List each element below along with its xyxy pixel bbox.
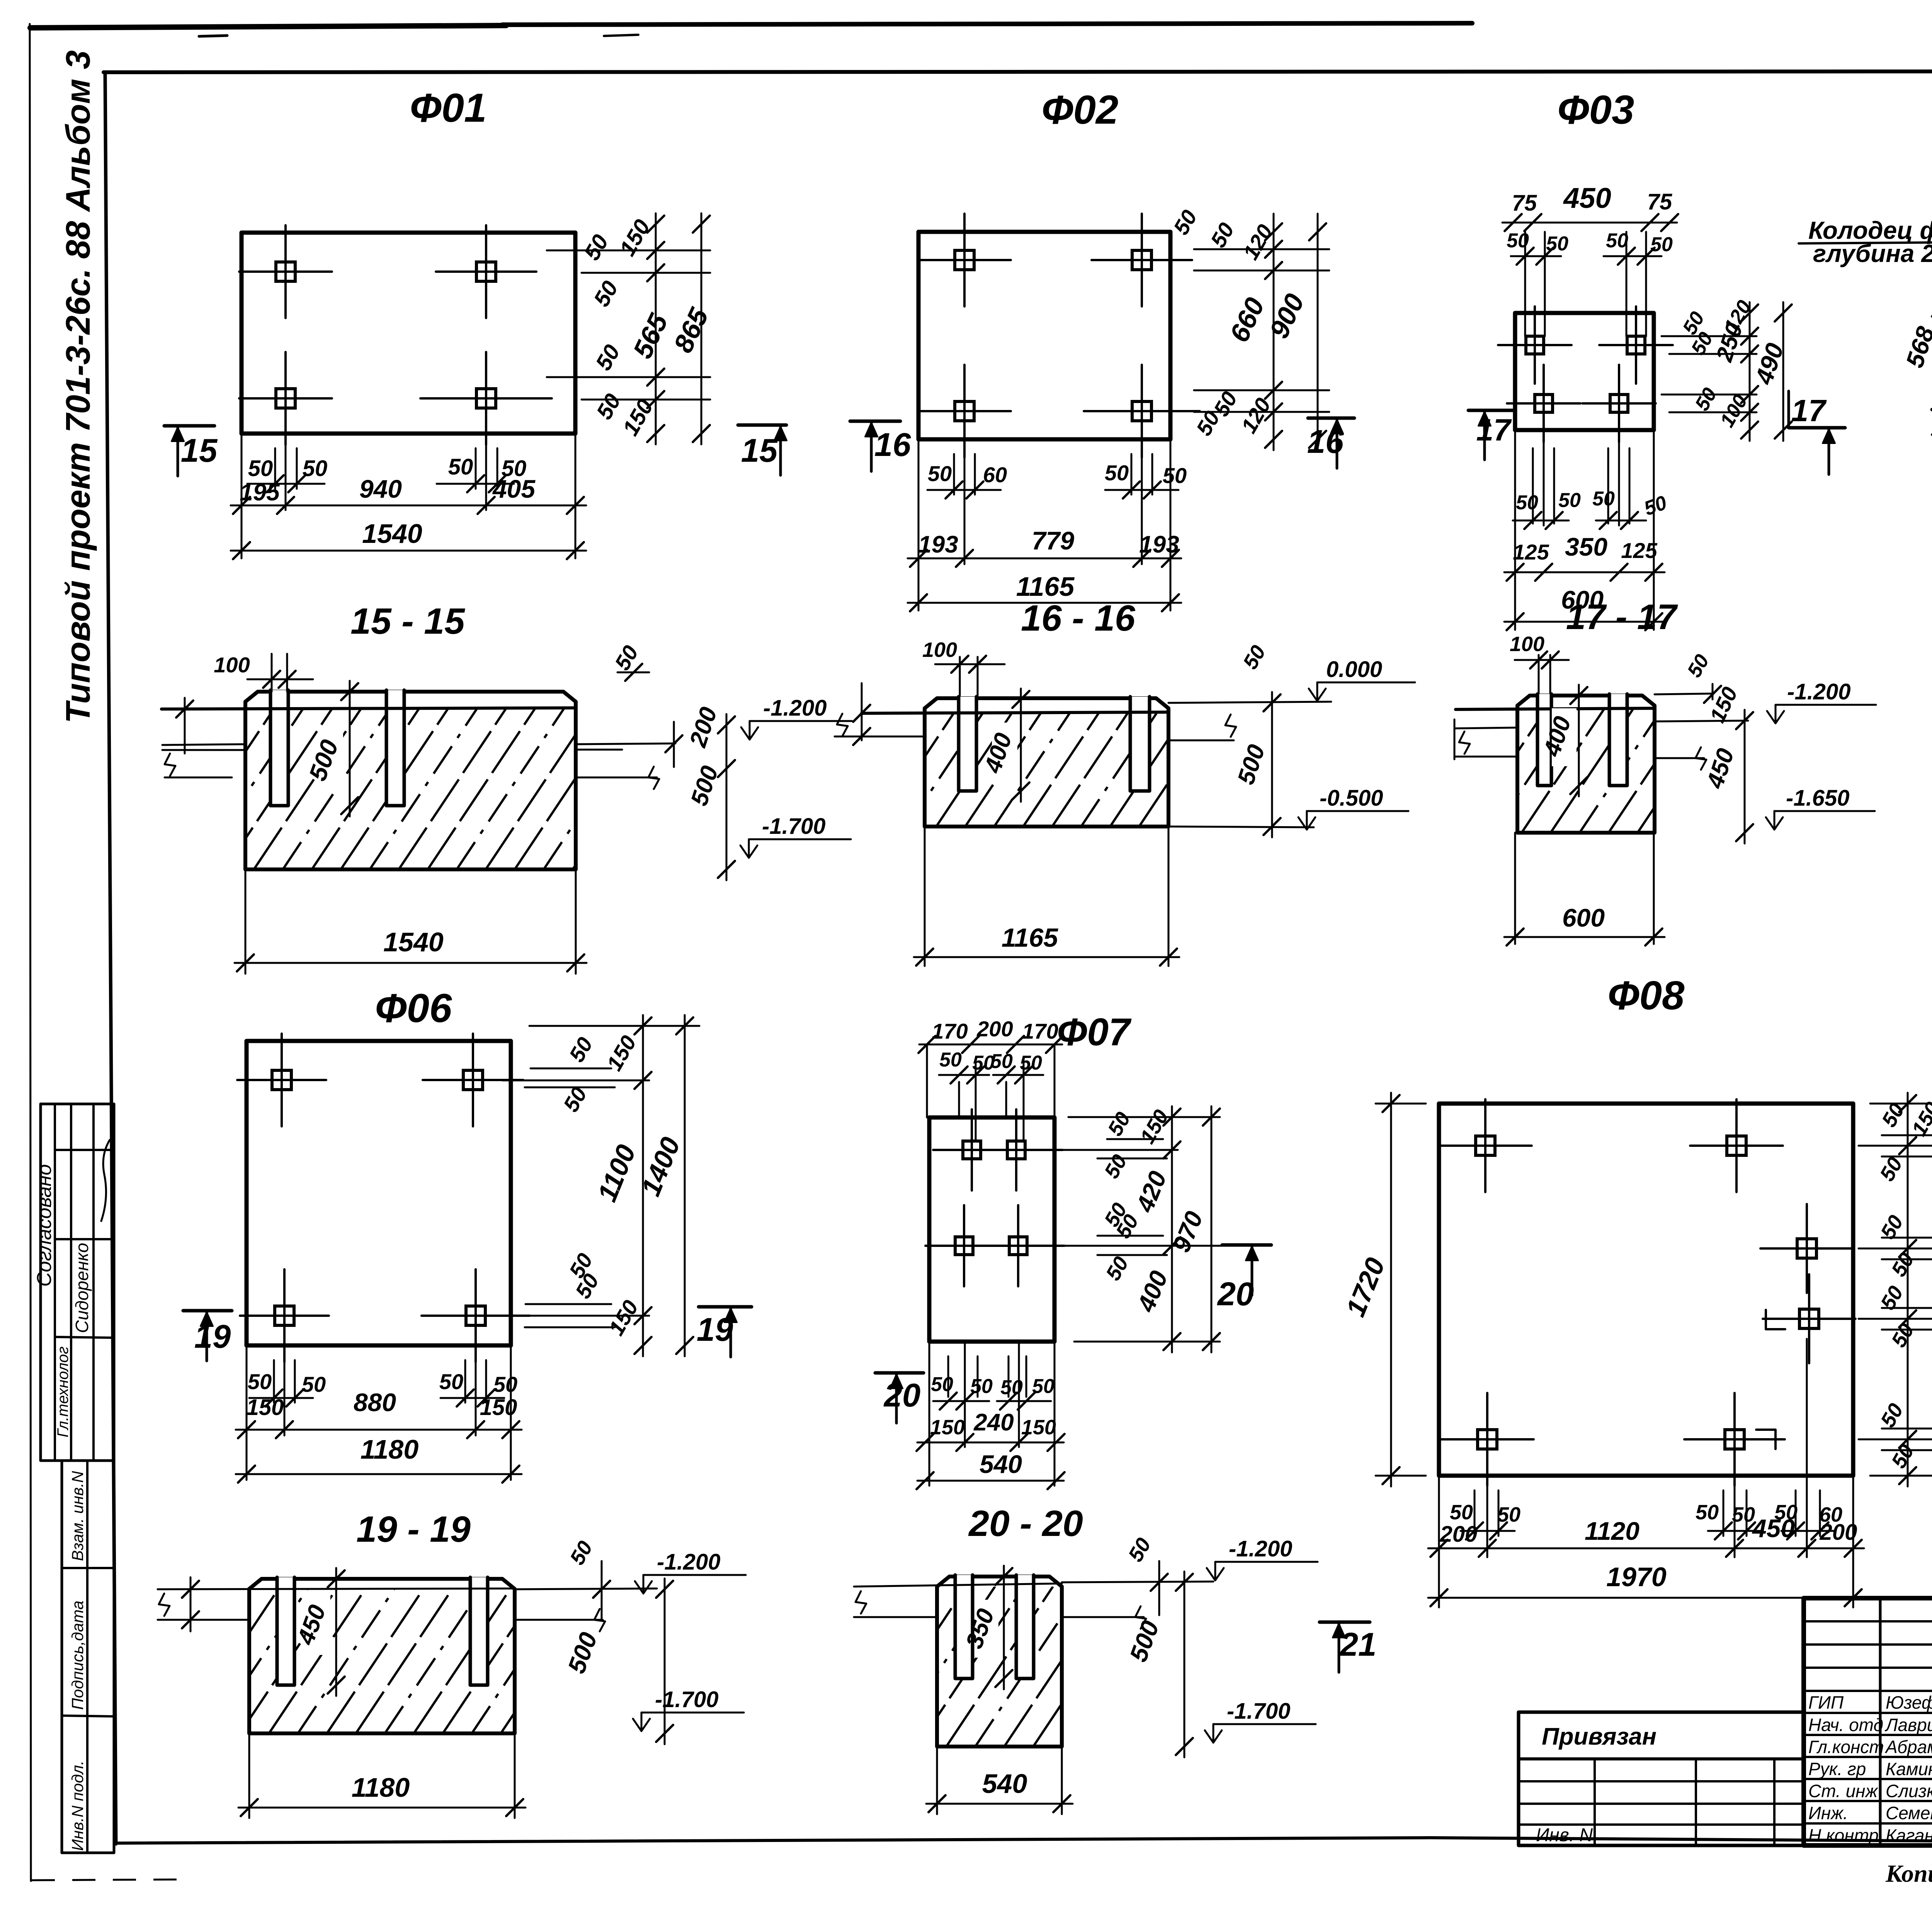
plan F04 left dim 568 [1900, 297, 1932, 437]
svg-text:Инж.: Инж. [1808, 1803, 1848, 1823]
plan F01 anchor bolts [239, 225, 552, 445]
plan F01 right dimension lines [547, 213, 714, 444]
section 16-16 floor lines left [835, 683, 925, 745]
section mark 21 left [1320, 1621, 1370, 1624]
svg-text:120: 120 [1236, 394, 1275, 437]
svg-text:75: 75 [1512, 190, 1537, 216]
svg-text:-1.200: -1.200 [1229, 1536, 1292, 1561]
plan F06 bottom dimension lines [236, 1345, 522, 1483]
svg-text:50: 50 [1876, 1282, 1908, 1314]
svg-text:19: 19 [194, 1318, 231, 1355]
svg-text:100: 100 [214, 653, 250, 677]
left margin table Согласовано block [33, 1104, 114, 1461]
plan F08 right dimension lines [1859, 1093, 1932, 1486]
svg-text:-1.200: -1.200 [657, 1549, 720, 1575]
plan F03 outline [1515, 313, 1654, 430]
section 19-19 right dims 50 500 [562, 1537, 673, 1744]
svg-text:Ф08: Ф08 [1608, 973, 1685, 1018]
section mark 19 right [699, 1305, 752, 1309]
svg-text:Инв.N подл.: Инв.N подл. [68, 1760, 87, 1851]
section 20-20 inner depth dim 350 [961, 1566, 1012, 1689]
svg-text:1540: 1540 [362, 519, 422, 549]
svg-text:Слизкой: Слизкой [1886, 1781, 1932, 1801]
plan F02 right dimension lines [1168, 206, 1329, 450]
plan F03 bottom dimension lines [1504, 430, 1670, 630]
plan F08 bottom dimension lines [1428, 1339, 1864, 1607]
svg-text:50: 50 [970, 1375, 993, 1398]
section 16-16 bolt dim 100 [922, 638, 1005, 696]
section 15-15 inner depth dim 500 [303, 681, 358, 816]
svg-text:15: 15 [181, 432, 218, 469]
svg-text:50: 50 [1450, 1501, 1473, 1524]
section 19-19 floor lines left [158, 1577, 515, 1631]
svg-text:Согласовано: Согласовано [33, 1164, 56, 1287]
section 17-17 inner depth dim 400 [1538, 685, 1587, 796]
svg-text:Ф06: Ф06 [375, 986, 452, 1031]
svg-text:450: 450 [1752, 1514, 1795, 1543]
svg-text:17: 17 [1791, 393, 1827, 428]
svg-text:880: 880 [354, 1388, 396, 1417]
svg-text:50: 50 [1691, 384, 1721, 415]
plan F01 outline [241, 233, 575, 434]
svg-text:150: 150 [604, 1296, 643, 1339]
svg-text:Ф03: Ф03 [1558, 87, 1634, 133]
svg-text:150: 150 [480, 1395, 517, 1420]
svg-text:1540: 1540 [383, 927, 444, 957]
section 17-17 floor line through block [1456, 708, 1655, 709]
svg-text:15 - 15: 15 - 15 [350, 601, 465, 642]
section mark 17 left [1468, 410, 1513, 460]
svg-text:50: 50 [439, 1369, 463, 1394]
plan F07 anchor bolts [925, 1109, 1065, 1286]
svg-text:20: 20 [1217, 1276, 1254, 1313]
svg-text:50: 50 [1650, 233, 1673, 256]
svg-text:50: 50 [589, 277, 623, 311]
svg-text:16: 16 [874, 427, 911, 463]
svg-text:Нач. отд: Нач. отд [1808, 1715, 1883, 1735]
svg-text:500: 500 [562, 1629, 602, 1677]
plan F06 right dimension lines [502, 1015, 699, 1356]
svg-text:Инв. N: Инв. N [1536, 1825, 1593, 1845]
plan F06 anchor bolts [237, 1034, 530, 1362]
section 15-15 ground lines right [576, 722, 682, 789]
svg-text:200: 200 [976, 1017, 1013, 1041]
svg-text:50: 50 [564, 1033, 597, 1066]
svg-text:50: 50 [1032, 1375, 1054, 1398]
svg-text:-1.700: -1.700 [655, 1687, 718, 1712]
svg-text:50: 50 [939, 1049, 962, 1071]
section 19-19 bottom dim 1180 [238, 1733, 526, 1818]
plan F07 bottom dimension lines [917, 1342, 1065, 1489]
svg-text:1165: 1165 [1002, 923, 1058, 952]
svg-text:970: 970 [1167, 1207, 1208, 1256]
plan F01 bottom dimension lines [231, 434, 586, 559]
svg-text:60: 60 [983, 463, 1007, 487]
title block outer box [1804, 1598, 1932, 1845]
section 17-17 ground lines right [1655, 694, 1748, 770]
svg-text:50: 50 [1000, 1376, 1023, 1399]
svg-text:50: 50 [592, 389, 626, 423]
title block signature labels [1808, 1692, 1932, 1845]
section 16-16 right dims 50 500 [1233, 641, 1281, 837]
svg-text:50: 50 [1168, 206, 1202, 239]
svg-text:50: 50 [248, 1369, 272, 1394]
svg-text:50: 50 [1163, 463, 1187, 488]
svg-text:50: 50 [1641, 492, 1670, 520]
svg-text:ГИП: ГИП [1808, 1692, 1844, 1713]
plan F06 outline [247, 1041, 511, 1345]
section 17-17 right dims 50 150 450 [1683, 651, 1753, 844]
svg-text:150: 150 [615, 215, 655, 260]
svg-text:779: 779 [1032, 526, 1074, 555]
svg-text:15: 15 [741, 432, 778, 469]
svg-text:350: 350 [1565, 532, 1607, 561]
svg-text:-0.500: -0.500 [1320, 786, 1383, 811]
svg-text:50: 50 [1516, 492, 1538, 514]
svg-text:20 - 20: 20 - 20 [968, 1503, 1083, 1544]
svg-text:50: 50 [448, 454, 473, 480]
svg-text:150: 150 [1136, 1106, 1173, 1148]
svg-text:193: 193 [918, 531, 958, 558]
svg-text:Ф07: Ф07 [1057, 1010, 1132, 1054]
svg-text:420: 420 [1929, 1255, 1932, 1304]
svg-text:50: 50 [1558, 489, 1581, 512]
torn paper top edge [30, 23, 1472, 36]
section 17-17 floor lines left [1454, 719, 1517, 759]
svg-text:150: 150 [1705, 683, 1742, 726]
svg-text:Рук. гр: Рук. гр [1808, 1759, 1866, 1779]
privyazan table [1519, 1712, 1804, 1845]
svg-text:50: 50 [1546, 233, 1568, 255]
svg-text:Подпись,дата: Подпись,дата [68, 1600, 87, 1710]
svg-text:865: 865 [668, 303, 714, 357]
svg-text:500: 500 [1233, 742, 1270, 788]
svg-text:50: 50 [565, 1537, 597, 1569]
svg-text:568: 568 [1900, 323, 1932, 371]
section 15-15 bottom dim 1540 [235, 869, 587, 974]
svg-text:200: 200 [1820, 1520, 1857, 1545]
svg-text:Каминская: Каминская [1886, 1759, 1932, 1779]
plan F08 left dim 1720 [1340, 1093, 1426, 1486]
svg-text:900: 900 [1264, 289, 1310, 343]
svg-text:50: 50 [1497, 1503, 1520, 1526]
plan F07 top dimension lines [918, 1017, 1063, 1151]
section mark 20 left [875, 1371, 923, 1375]
plan F07 outline [929, 1117, 1054, 1342]
svg-text:1180: 1180 [361, 1434, 419, 1464]
svg-text:-1.700: -1.700 [1227, 1699, 1290, 1724]
plan F03 anchor bolts [1498, 306, 1673, 442]
svg-text:500: 500 [686, 763, 724, 809]
svg-text:100: 100 [1510, 633, 1544, 656]
svg-text:20: 20 [883, 1377, 921, 1414]
svg-text:1100: 1100 [592, 1141, 641, 1206]
svg-text:125: 125 [1621, 538, 1657, 563]
svg-text:540: 540 [982, 1769, 1027, 1799]
svg-text:17 - 17: 17 - 17 [1566, 597, 1678, 637]
title block signature grid [1804, 1598, 1932, 1845]
svg-text:50: 50 [248, 456, 273, 481]
svg-text:Юзефович: Юзефович [1886, 1692, 1932, 1713]
svg-text:50: 50 [1732, 1503, 1755, 1526]
svg-text:19 - 19: 19 - 19 [356, 1509, 471, 1550]
svg-text:565: 565 [627, 309, 674, 363]
svg-text:1165: 1165 [1016, 571, 1075, 602]
svg-text:16 - 16: 16 - 16 [1021, 598, 1136, 639]
svg-text:50: 50 [1238, 641, 1270, 673]
svg-text:75: 75 [1647, 189, 1672, 214]
svg-text:17: 17 [1476, 413, 1512, 447]
svg-text:170: 170 [932, 1019, 968, 1043]
svg-text:Привязан: Привязан [1542, 1723, 1656, 1750]
svg-text:19: 19 [697, 1311, 733, 1348]
section 19-19 inner depth dim 450 [292, 1568, 345, 1696]
svg-text:150: 150 [247, 1395, 284, 1420]
svg-text:Гл.конст: Гл.конст [1808, 1737, 1884, 1757]
svg-text:50: 50 [1683, 651, 1714, 681]
svg-text:240: 240 [973, 1409, 1014, 1436]
section mark 16 left [850, 420, 900, 423]
well callout text [1799, 216, 1932, 318]
svg-text:150: 150 [1021, 1416, 1056, 1439]
plan F08 outline [1439, 1104, 1853, 1476]
svg-text:1720: 1720 [1340, 1253, 1391, 1321]
section mark 15 left [164, 424, 214, 428]
section 17-17 bottom dim 600 [1504, 833, 1665, 946]
svg-text:420: 420 [1130, 1167, 1172, 1217]
section 20-20 right dims 50 500 [1124, 1534, 1193, 1757]
svg-text:50: 50 [1206, 219, 1239, 252]
plan F07 right dimension lines [1043, 1106, 1237, 1352]
svg-text:Копировала Миф.: Копировала Миф. [1885, 1860, 1932, 1887]
svg-text:50: 50 [1876, 1400, 1908, 1431]
plan F03 right dimension lines [1662, 296, 1792, 441]
svg-text:50: 50 [1020, 1052, 1042, 1074]
svg-text:120: 120 [1238, 220, 1277, 264]
svg-text:50: 50 [1887, 1440, 1918, 1472]
svg-text:50: 50 [1696, 1501, 1719, 1524]
svg-text:50: 50 [1105, 461, 1129, 485]
svg-text:450: 450 [1701, 745, 1739, 793]
svg-text:200: 200 [1440, 1522, 1478, 1547]
svg-text:50: 50 [579, 230, 614, 264]
section 15-15 floor line through block [162, 708, 576, 709]
svg-text:-1.200: -1.200 [763, 696, 827, 721]
section 20-20 floor lines left [854, 1583, 1062, 1617]
svg-text:50: 50 [1887, 1320, 1918, 1351]
svg-text:50: 50 [928, 461, 952, 486]
svg-text:-1.200: -1.200 [1787, 679, 1850, 704]
svg-text:500: 500 [1124, 1617, 1164, 1665]
section 20-20 bottom dim 540 [926, 1747, 1073, 1814]
outer sheet left edge line [30, 24, 182, 1881]
svg-text:150: 150 [930, 1416, 965, 1439]
svg-text:50: 50 [1606, 230, 1628, 252]
svg-text:50: 50 [1103, 1108, 1135, 1140]
svg-text:Ф01: Ф01 [410, 85, 487, 131]
svg-text:Взам. инв.N: Взам. инв.N [68, 1471, 87, 1561]
svg-text:-1.700: -1.700 [762, 814, 825, 839]
plan F02 outline [918, 232, 1170, 439]
svg-text:50: 50 [1124, 1534, 1155, 1566]
svg-text:Абрамовский: Абрамовский [1884, 1737, 1932, 1757]
svg-text:50: 50 [302, 1372, 326, 1396]
svg-text:100: 100 [922, 638, 957, 662]
plan F02 bottom dimension lines [908, 439, 1187, 611]
svg-text:193: 193 [1139, 531, 1179, 558]
section 16-16 floor line through block [862, 712, 1168, 713]
svg-text:50: 50 [990, 1050, 1013, 1073]
section mark 19 left [183, 1309, 232, 1313]
svg-text:Сидоренко: Сидоренко [72, 1243, 92, 1333]
svg-text:Лавриненко: Лавриненко [1884, 1715, 1932, 1735]
svg-text:21: 21 [1339, 1626, 1377, 1663]
plan F08 corner bracket marks [1756, 1310, 1785, 1449]
svg-text:660: 660 [1224, 293, 1270, 347]
svg-text:50: 50 [1101, 1253, 1133, 1284]
svg-text:Типовой проект 701-3-26с. 88: Типовой проект 701-3-26с. 88 Альбом 3 [59, 50, 97, 723]
svg-text:Н.контр: Н.контр [1808, 1825, 1879, 1845]
svg-text:400: 400 [1131, 1267, 1173, 1316]
svg-text:125: 125 [1513, 540, 1549, 564]
svg-text:Гл.технолог: Гл.технолог [54, 1347, 71, 1437]
plan F03 top dimension lines [1502, 182, 1678, 336]
svg-text:16: 16 [1307, 423, 1344, 460]
section 16-16 bottom dim 1165 [914, 827, 1179, 966]
section 16-16 bottom level line [1168, 827, 1314, 827]
section 19-19 ground lines right [515, 1561, 657, 1631]
section 16-16 floor line right [1168, 702, 1331, 740]
svg-text:405: 405 [492, 474, 536, 503]
svg-text:50: 50 [1875, 1153, 1907, 1185]
section mark 16 right [1308, 417, 1354, 420]
svg-text:1180: 1180 [352, 1772, 410, 1803]
svg-text:1120: 1120 [1585, 1517, 1639, 1545]
svg-text:50: 50 [303, 456, 328, 481]
section mark 17 right [1789, 391, 1845, 474]
svg-text:Ф02: Ф02 [1042, 87, 1119, 133]
section 15-15 right dims 50 200 500 [610, 641, 735, 880]
svg-text:540: 540 [980, 1450, 1022, 1478]
svg-text:50: 50 [1100, 1151, 1131, 1182]
svg-text:Ст. инж: Ст. инж [1808, 1781, 1878, 1801]
svg-text:50: 50 [1592, 488, 1615, 510]
section 15-15 floor lines left [162, 698, 245, 777]
svg-text:1970: 1970 [1606, 1562, 1667, 1592]
svg-text:50: 50 [493, 1372, 517, 1396]
svg-text:200: 200 [684, 704, 722, 751]
svg-text:940: 940 [359, 474, 402, 503]
section mark 20 right [1222, 1243, 1271, 1247]
svg-text:50: 50 [591, 340, 625, 374]
svg-text:Семенова: Семенова [1886, 1803, 1932, 1823]
svg-text:170: 170 [1022, 1019, 1058, 1043]
section 20-20 ground lines right [1062, 1561, 1213, 1629]
section 16-16 inner depth dim 400 [979, 689, 1029, 802]
svg-text:600: 600 [1562, 903, 1605, 932]
svg-text:195: 195 [240, 479, 280, 506]
svg-text:0.000: 0.000 [1326, 657, 1382, 682]
plan F08 anchor bolts [1439, 1099, 1855, 1486]
svg-text:-1.650: -1.650 [1786, 786, 1849, 811]
section mark 15 right [738, 423, 786, 427]
svg-text:450: 450 [1563, 182, 1611, 214]
svg-text:Каганович: Каганович [1886, 1825, 1932, 1845]
left margin table Взам.инв / Подпись / Инв.N подл [62, 1461, 114, 1853]
plan F02 anchor bolts [918, 214, 1200, 457]
svg-text:50: 50 [931, 1373, 953, 1396]
section 17-17 bolt dim 100 [1510, 633, 1569, 694]
svg-text:50: 50 [1887, 1249, 1918, 1281]
copied by note [1885, 1860, 1932, 1890]
section 15-15 bolt dim 100 [214, 653, 313, 692]
svg-text:50: 50 [1507, 230, 1529, 252]
